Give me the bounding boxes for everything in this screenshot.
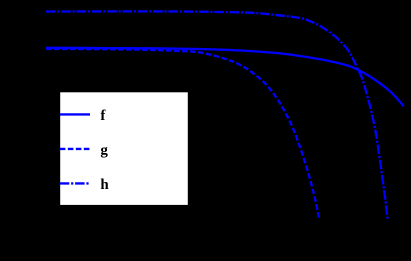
curve g (dashed) <box>46 49 319 218</box>
legend sample g (dashed) <box>60 148 90 150</box>
legend box <box>60 92 189 206</box>
legend sample h (dash-dot) <box>60 182 90 184</box>
svg-text:g: g <box>100 143 108 159</box>
curve f (solid) <box>46 48 404 107</box>
curve h (dash-dot) <box>46 11 388 218</box>
legend sample f (solid) <box>60 113 90 115</box>
svg-text:h: h <box>100 177 109 193</box>
